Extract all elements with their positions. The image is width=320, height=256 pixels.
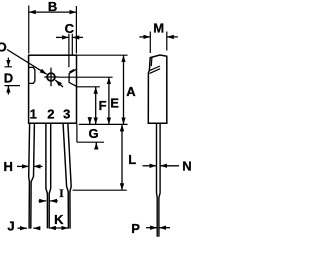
dim K line <box>49 227 68 229</box>
dim A line <box>123 55 125 124</box>
dim J arrows <box>18 227 27 229</box>
dim E line <box>108 77 110 124</box>
front view body outline <box>29 55 77 123</box>
dim M extension lines <box>150 32 167 54</box>
svg-text:B: B <box>48 0 57 14</box>
mounting hole <box>47 73 55 81</box>
svg-text:I: I <box>59 186 64 200</box>
svg-text:L: L <box>128 152 136 167</box>
ref line E (hole center) <box>59 76 113 78</box>
right notch <box>69 69 77 87</box>
lead 2 <box>46 124 48 228</box>
svg-text:E: E <box>110 96 119 111</box>
dim C extension lines <box>69 34 72 67</box>
dim D arrows <box>7 58 9 67</box>
svg-text:1: 1 <box>30 107 37 122</box>
ref line bottom <box>79 123 128 125</box>
dim C arrows <box>56 36 69 38</box>
svg-text:J: J <box>7 218 14 233</box>
dim B extension lines <box>29 6 77 54</box>
ref line F <box>77 86 100 88</box>
dim D ticks <box>5 67 21 86</box>
side view outline <box>148 55 167 123</box>
right notch inner top wall <box>69 69 74 72</box>
hole leader <box>7 50 47 75</box>
svg-text:2: 2 <box>47 107 54 122</box>
lead 3 <box>63 124 68 229</box>
svg-text:N: N <box>182 159 191 174</box>
dim F line <box>95 87 97 125</box>
svg-text:H: H <box>4 159 13 174</box>
svg-text:3: 3 <box>63 107 70 122</box>
left notch <box>29 67 35 83</box>
svg-text:K: K <box>54 212 64 227</box>
dim I arrows <box>39 200 47 202</box>
dim G arrows <box>89 117 91 124</box>
svg-text:O: O <box>0 39 7 54</box>
dim L line <box>121 124 123 190</box>
svg-text:P: P <box>131 221 140 236</box>
svg-text:G: G <box>89 126 99 141</box>
dim M arrows <box>139 36 150 38</box>
svg-text:C: C <box>65 21 75 36</box>
svg-text:A: A <box>126 84 136 99</box>
dim P arrows <box>146 227 157 229</box>
ref line top A <box>77 54 128 56</box>
dim N arrows <box>143 165 157 167</box>
ref line L bottom <box>73 189 127 191</box>
dim H arrows <box>17 165 29 167</box>
dim B line <box>29 11 77 13</box>
side tab inner line <box>150 57 153 66</box>
side lead <box>156 123 159 237</box>
svg-text:F: F <box>99 98 107 113</box>
svg-text:M: M <box>153 20 164 35</box>
lead 1 <box>28 124 31 229</box>
svg-text:D: D <box>4 71 13 86</box>
side chamfer diagonals <box>149 66 160 73</box>
dim G extension <box>77 124 104 142</box>
